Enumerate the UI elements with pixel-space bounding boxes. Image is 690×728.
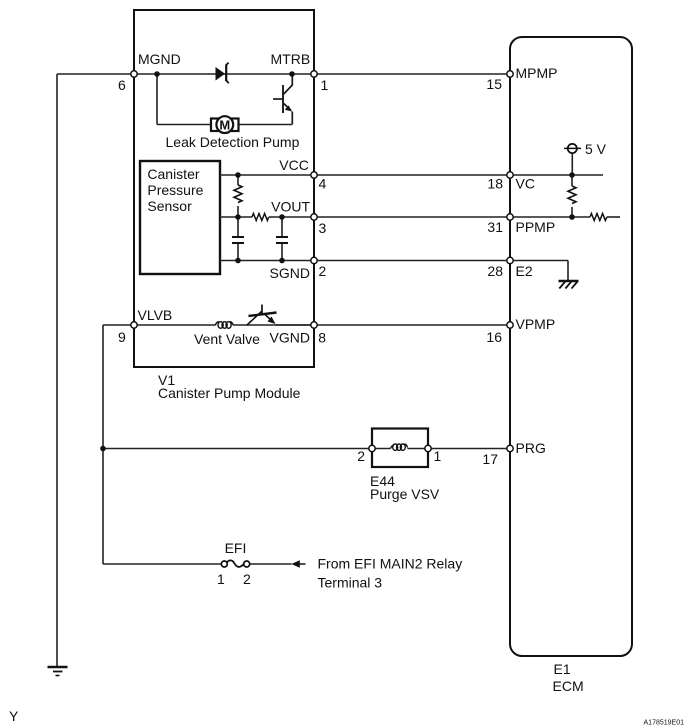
svg-text:PRG: PRG [516,440,546,456]
svg-text:MGND: MGND [138,51,181,67]
svg-text:1: 1 [434,448,442,464]
svg-text:17: 17 [482,451,498,467]
svg-text:SGND: SGND [270,265,310,281]
svg-text:2: 2 [319,263,327,279]
svg-text:15: 15 [486,76,502,92]
svg-text:Leak Detection Pump: Leak Detection Pump [166,134,300,150]
svg-text:Sensor: Sensor [147,198,192,214]
svg-text:Canister Pump Module: Canister Pump Module [158,385,301,401]
svg-text:5 V: 5 V [585,141,607,157]
svg-text:MTRB: MTRB [271,51,311,67]
svg-text:ECM: ECM [553,678,584,694]
svg-text:Purge VSV: Purge VSV [370,486,440,502]
svg-text:Y: Y [9,708,19,724]
svg-text:Pressure: Pressure [147,182,203,198]
svg-text:VOUT: VOUT [271,199,310,215]
svg-text:28: 28 [487,263,503,279]
svg-text:A178519E01: A178519E01 [644,720,685,727]
svg-text:Terminal 3: Terminal 3 [318,575,383,591]
svg-text:VCC: VCC [279,157,309,173]
svg-text:E2: E2 [516,263,533,279]
svg-text:31: 31 [487,219,503,235]
svg-text:Canister: Canister [147,166,199,182]
svg-text:1: 1 [321,77,329,93]
svg-text:M: M [219,117,230,132]
svg-text:VLVB: VLVB [138,307,173,323]
svg-text:6: 6 [118,77,126,93]
svg-text:8: 8 [318,330,326,346]
svg-text:4: 4 [319,176,327,192]
svg-text:From EFI MAIN2 Relay: From EFI MAIN2 Relay [318,556,463,572]
svg-text:2: 2 [357,448,365,464]
svg-text:9: 9 [118,329,126,345]
svg-text:VPMP: VPMP [516,316,556,332]
svg-text:Vent Valve: Vent Valve [194,331,260,347]
svg-text:18: 18 [487,176,503,192]
svg-text:3: 3 [319,220,327,236]
svg-text:VC: VC [516,176,535,192]
svg-text:E1: E1 [554,661,571,677]
svg-text:MPMP: MPMP [516,65,558,81]
svg-text:16: 16 [486,329,502,345]
svg-text:PPMP: PPMP [516,219,556,235]
svg-text:EFI: EFI [225,540,247,556]
svg-text:2: 2 [243,571,251,587]
svg-text:VGND: VGND [270,330,310,346]
svg-text:1: 1 [217,571,225,587]
